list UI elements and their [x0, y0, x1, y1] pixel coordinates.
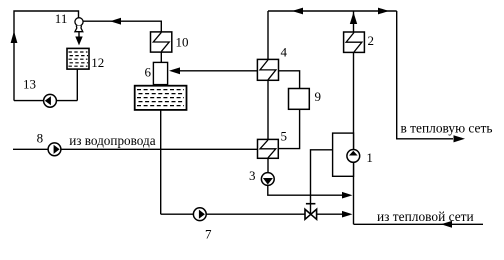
heat exchanger 5: [258, 139, 279, 158]
svg-text:1: 1: [366, 150, 373, 165]
wire left-loop bottom return: [14, 100, 77, 102]
deaerator head 6: [153, 62, 167, 84]
supply outlet to network: [397, 11, 465, 142]
svg-text:13: 13: [23, 77, 36, 92]
pump 1: [347, 150, 360, 163]
svg-text:8: 8: [37, 131, 44, 146]
svg-text:3: 3: [249, 168, 256, 183]
drip pipe with down arrow into tank 12: [75, 31, 82, 45]
svg-text:5: 5: [281, 129, 288, 144]
wire exchanger 2 up to top header with up arrow: [350, 11, 357, 32]
heat exchanger 10: [151, 32, 172, 52]
wire left-loop vertical riser: [14, 11, 79, 101]
pump 7: [193, 208, 206, 221]
svg-text:9: 9: [315, 89, 322, 104]
wire exchanger 4 right to box 9: [279, 71, 300, 89]
wire exchanger 5 down to pump 3: [267, 158, 269, 173]
svg-text:из водопровода: из водопровода: [69, 133, 156, 148]
wire pump 3 to return header with right arrow: [268, 185, 353, 198]
svg-text:6: 6: [145, 65, 152, 80]
return inlet from network with left arrow: [354, 221, 484, 228]
flow arrow left on that wire: [110, 18, 121, 25]
svg-text:4: 4: [281, 45, 288, 60]
expansion box 9: [289, 89, 310, 110]
heat exchanger 2: [344, 32, 365, 52]
gate valve: [305, 209, 317, 219]
wire pump house to valve stem: [311, 150, 333, 214]
pump house box 1: [333, 133, 354, 176]
tank 12: [67, 48, 89, 69]
svg-text:2: 2: [368, 33, 375, 48]
pump 13: [44, 94, 57, 107]
flow arrow right on top header: [378, 8, 389, 15]
wire from exchanger 4 to head 6 with left arrow: [169, 67, 257, 74]
wire from valve 11 to heat exchanger 10: [83, 21, 161, 32]
svg-text:в тепловую сеть: в тепловую сеть: [401, 121, 493, 136]
make-up line through pump 7 and valve with right arrow: [161, 211, 353, 218]
pump 3: [261, 173, 274, 186]
wire top header to exchanger 4: [267, 11, 269, 59]
svg-text:7: 7: [205, 227, 212, 242]
main network riser: [353, 52, 355, 224]
cold water supply line: [13, 148, 258, 150]
flow arrow up on left riser: [11, 31, 18, 43]
heat exchanger 4: [257, 59, 278, 80]
pump 8: [48, 143, 61, 156]
svg-text:11: 11: [55, 11, 68, 26]
top header line: [268, 10, 397, 12]
wire box 9 down to exchanger 5 right: [278, 109, 299, 148]
wire exchanger 4 to exchanger 5: [267, 80, 269, 139]
wire tank 12 down to bottom return: [76, 69, 78, 101]
valve handle bar: [306, 203, 316, 205]
svg-text:из тепловой сети: из тепловой сети: [377, 209, 474, 224]
flow arrow left on top header: [292, 8, 303, 15]
wire exchanger 10 to deaerator head 6: [160, 52, 162, 62]
float valve 11: [75, 18, 83, 32]
svg-text:12: 12: [91, 55, 104, 70]
wire storage tank down to make-up line: [160, 110, 162, 214]
storage tank (under 6): [135, 86, 187, 110]
svg-text:10: 10: [176, 35, 189, 50]
